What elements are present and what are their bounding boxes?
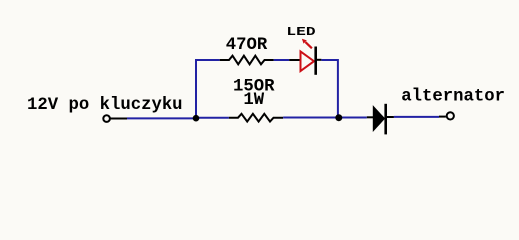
svg-text:alternator: alternator	[401, 87, 505, 106]
svg-text:47OR: 47OR	[226, 36, 268, 55]
svg-text:1W: 1W	[243, 91, 264, 110]
svg-text:LED: LED	[286, 25, 315, 39]
svg-text:12V po kluczyku: 12V po kluczyku	[27, 96, 183, 115]
